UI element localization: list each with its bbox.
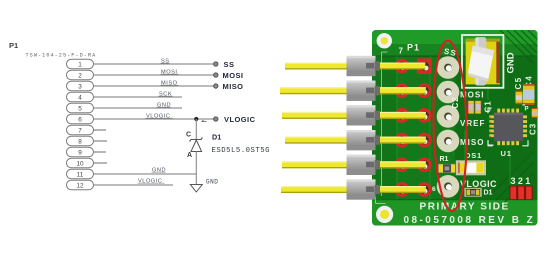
header pin row4 xyxy=(285,137,426,144)
svg-text:7: 7 xyxy=(78,127,82,134)
svg-text:VREF: VREF xyxy=(460,119,485,128)
mounting hole top-left xyxy=(377,33,392,48)
mounting hole bottom-left xyxy=(376,206,393,223)
junction node on VLOGIC net xyxy=(194,117,198,121)
pin 8 oval xyxy=(67,136,94,146)
net label MOSI xyxy=(161,69,179,75)
net label SS xyxy=(161,58,170,64)
row4 hole rings xyxy=(394,133,431,148)
svg-text:C5: C5 xyxy=(514,76,523,89)
svg-text:GND: GND xyxy=(506,52,517,73)
svg-text:P: P xyxy=(525,107,529,113)
svg-text:TSW-104-25-F-D-RA: TSW-104-25-F-D-RA xyxy=(26,53,97,59)
net label VLOGIC xyxy=(146,113,173,119)
test pad SS xyxy=(437,56,460,79)
capacitor C4 xyxy=(523,84,535,105)
jumper block (red) xyxy=(510,186,533,200)
housing row5 xyxy=(347,155,376,175)
svg-text:VLOGIC: VLOGIC xyxy=(224,115,256,124)
pin 3 oval xyxy=(67,81,94,91)
row5 hole rings xyxy=(394,157,431,172)
svg-text:10: 10 xyxy=(76,160,84,167)
svg-text:MOSI: MOSI xyxy=(223,71,244,80)
resistor R1 xyxy=(438,164,455,173)
row3 hole rings xyxy=(394,108,431,123)
svg-text:321: 321 xyxy=(511,176,533,186)
wire pin5 stub GND xyxy=(94,107,183,109)
svg-text:P1: P1 xyxy=(9,41,18,50)
svg-text:8: 8 xyxy=(78,138,82,145)
svg-text:5: 5 xyxy=(78,105,82,112)
net label MISO xyxy=(161,80,179,86)
svg-text:12: 12 xyxy=(76,182,84,189)
svg-text:C3: C3 xyxy=(529,123,538,135)
red annotation ellipse xyxy=(431,40,468,211)
wire pin6 to VLOGIC xyxy=(94,118,215,120)
svg-text:4: 4 xyxy=(78,94,82,101)
row6 hole rings xyxy=(394,182,431,197)
capacitor C1 xyxy=(475,101,481,114)
test pad column (beige pads) xyxy=(437,56,460,197)
header plastic housings xyxy=(347,56,381,200)
LED DS1 xyxy=(456,160,486,175)
test pad VREF xyxy=(437,105,460,128)
capacitor C5 xyxy=(516,91,523,105)
pin 6 oval xyxy=(67,114,94,124)
svg-text:9: 9 xyxy=(78,149,82,156)
header pin row1 xyxy=(285,63,425,70)
svg-text:2: 2 xyxy=(78,72,82,79)
IC U1 xyxy=(489,109,527,146)
svg-text:U1: U1 xyxy=(501,149,512,158)
terminal node SS xyxy=(214,62,218,66)
svg-text:11: 11 xyxy=(77,171,84,178)
header pin row2 xyxy=(280,87,426,94)
svg-text:SS: SS xyxy=(224,60,235,69)
net label GND xyxy=(157,102,172,108)
svg-text:6: 6 xyxy=(432,186,436,193)
svg-text:D1: D1 xyxy=(212,133,221,142)
small arrow tick on VLOGIC wire xyxy=(202,120,207,121)
net label SCK xyxy=(159,91,173,97)
svg-text:6: 6 xyxy=(78,116,82,123)
svg-text:R1: R1 xyxy=(440,156,449,163)
pin 9 oval xyxy=(67,147,94,157)
svg-text:ESD5L5.0ST5G: ESD5L5.0ST5G xyxy=(212,147,271,155)
silkscreen bracket near DS1 xyxy=(488,140,494,145)
wire pin11 to GND net xyxy=(94,173,197,175)
pin 12 oval xyxy=(67,180,94,190)
U1 silkscreen corner brackets and P xyxy=(488,105,528,146)
pin numbers 1-12 xyxy=(76,61,84,189)
wire pin9 stub xyxy=(94,151,107,153)
svg-text:7: 7 xyxy=(399,46,404,55)
wire pin12 VLOGIC stub xyxy=(94,184,174,186)
pin 4 oval xyxy=(67,92,94,102)
svg-text:MISO: MISO xyxy=(460,138,484,147)
row1: hole rings xyxy=(394,58,431,74)
right edge shading xyxy=(534,56,538,199)
connector P1 pin ovals with pin numbers 1-12 xyxy=(67,59,94,190)
net label GND on wire 11 xyxy=(152,167,167,173)
svg-text:1: 1 xyxy=(78,61,82,68)
darker inner region xyxy=(455,57,538,200)
header pin rows xyxy=(394,58,431,197)
terminal node VLOGIC xyxy=(214,117,218,121)
header pin row3 xyxy=(282,112,426,119)
svg-text:C: C xyxy=(186,132,191,139)
P1 silkscreen outline line xyxy=(376,52,388,204)
ground symbol xyxy=(190,185,202,193)
net label VLOGIC on wire 12 xyxy=(138,178,165,184)
svg-text:08-057008 REV B Z: 08-057008 REV B Z xyxy=(404,215,536,226)
switch S1 silkscreen box xyxy=(462,35,503,88)
PCB board xyxy=(280,30,538,226)
svg-text:3: 3 xyxy=(78,83,82,90)
pin 11 oval xyxy=(67,169,94,179)
wire pin8 stub xyxy=(94,140,108,142)
housing row2 xyxy=(347,81,376,101)
pin 7 oval xyxy=(67,125,94,135)
wire diode anode to ground xyxy=(195,152,197,185)
housing row1 xyxy=(347,56,376,76)
pin 10 oval xyxy=(67,158,94,168)
svg-text:C2: C2 xyxy=(451,96,460,108)
trace pattern diagonal top-right corner xyxy=(492,30,538,206)
row2 hole rings xyxy=(394,83,431,98)
housing row4 xyxy=(347,130,376,150)
test pad MOSI xyxy=(437,81,460,104)
diode D1 triangle xyxy=(191,140,202,152)
wire pin4 stub SCK xyxy=(94,96,183,98)
diode D1 zener cathode bar xyxy=(190,138,203,142)
pin 5 oval xyxy=(67,103,94,113)
housing row3 xyxy=(347,105,376,125)
svg-text:PRIMARY SIDE: PRIMARY SIDE xyxy=(420,201,510,212)
wire pin10 stub xyxy=(94,162,108,164)
header pin row5 xyxy=(282,161,426,168)
diode D1 xyxy=(464,188,482,197)
svg-text:VLOGIC: VLOGIC xyxy=(460,179,497,189)
svg-text:DS1: DS1 xyxy=(465,151,482,160)
wire pin2 to MOSI xyxy=(94,74,215,76)
svg-text:D1: D1 xyxy=(484,190,493,197)
svg-text:MISO: MISO xyxy=(223,82,244,91)
housing row6 xyxy=(347,179,376,199)
terminal node MOSI xyxy=(214,73,218,77)
svg-text:A: A xyxy=(187,152,192,159)
svg-text:P1: P1 xyxy=(407,43,420,53)
capacitor C2 xyxy=(468,101,474,114)
switch S1 actuator xyxy=(475,37,487,85)
test pad MISO xyxy=(437,130,460,153)
wire pin7 stub xyxy=(94,129,107,131)
through-hole ring col1 row1 xyxy=(394,59,409,74)
wire pin3 to MISO xyxy=(94,85,215,87)
terminal node MISO xyxy=(214,84,218,88)
capacitor C3 xyxy=(532,108,538,118)
wire junction to diode cathode xyxy=(195,119,197,140)
header long pins (yellow) xyxy=(280,63,426,194)
pin1 square pad marker (red) xyxy=(417,58,432,74)
pin 1 oval xyxy=(67,59,94,69)
switch S1 yellow pad xyxy=(466,39,500,85)
header pin row6 xyxy=(281,186,426,193)
pin 2 oval xyxy=(67,70,94,80)
wire pin1 to SS xyxy=(94,63,215,65)
svg-text:GND: GND xyxy=(206,179,218,186)
test pad VLOGIC xyxy=(437,175,460,198)
